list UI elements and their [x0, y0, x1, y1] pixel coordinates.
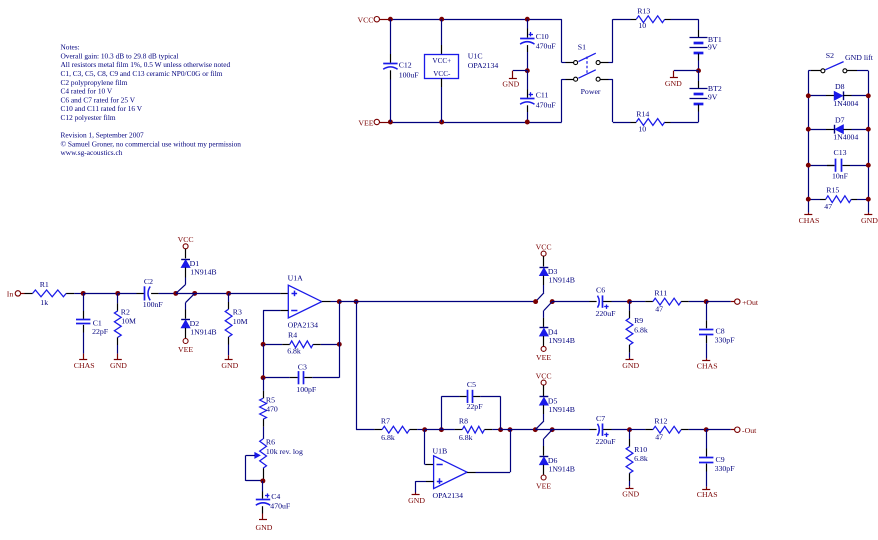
svg-text:-Out: -Out	[742, 426, 757, 435]
wire switch to R13 rail	[600, 62, 608, 64]
junction D2 tap	[192, 291, 197, 296]
wire C6 to R11	[630, 301, 646, 303]
svg-text:10: 10	[638, 125, 646, 134]
svg-text:10M: 10M	[121, 317, 136, 326]
svg-text:C2: C2	[144, 277, 153, 286]
svg-text:6.8k: 6.8k	[634, 325, 648, 334]
svg-text:VEE: VEE	[536, 353, 551, 362]
svg-text:VCC: VCC	[178, 235, 194, 244]
svg-text:S1: S1	[578, 42, 586, 51]
svg-text:D7: D7	[835, 115, 845, 124]
wire D3 jog	[536, 293, 544, 302]
svg-text:470uF: 470uF	[536, 41, 557, 50]
svg-text:U1A: U1A	[288, 274, 304, 283]
svg-text:10: 10	[638, 21, 646, 30]
diode D1	[185, 249, 187, 259]
capacitor C12	[390, 19, 392, 54]
svg-text:C4 rated for 10 V: C4 rated for 10 V	[61, 87, 113, 96]
node GND under R3	[228, 355, 230, 359]
capacitor C6	[590, 301, 597, 303]
svg-text:1N914B: 1N914B	[549, 405, 575, 414]
svg-text:1N914B: 1N914B	[190, 267, 216, 276]
node -Out terminal	[706, 429, 731, 431]
capacitor C13	[808, 165, 834, 167]
svg-text:CHAS: CHAS	[799, 216, 820, 225]
node CHAS under C8	[706, 358, 708, 361]
resistor R1	[25, 293, 33, 295]
svg-text:GND: GND	[861, 216, 878, 225]
resistor R9	[629, 302, 631, 311]
capacitor C3 feedback	[263, 344, 265, 377]
wire D1 jog to line	[176, 284, 186, 293]
node CHAS gnd-lift	[808, 213, 810, 215]
svg-text:R9: R9	[634, 316, 643, 325]
svg-text:Power: Power	[581, 87, 601, 96]
svg-text:6.8k: 6.8k	[287, 347, 301, 356]
wire S2 left to rail	[811, 70, 821, 72]
svg-text:R5: R5	[266, 395, 275, 404]
wire C1 to R2	[83, 293, 118, 295]
node GND under R2	[117, 354, 119, 360]
svg-text:C13: C13	[834, 148, 847, 157]
svg-text:VCC: VCC	[536, 243, 552, 252]
svg-text:1N914B: 1N914B	[190, 328, 216, 337]
svg-text:C10: C10	[536, 32, 549, 41]
svg-text:C8: C8	[716, 327, 725, 336]
battery BT2	[698, 71, 700, 81]
junction D6 tap	[550, 427, 555, 432]
wire R7 to R8	[425, 429, 455, 431]
svg-text:VEE: VEE	[536, 482, 551, 491]
junction C13 left	[806, 163, 811, 168]
capacitor C1	[83, 293, 85, 311]
wire R3 to U1A +input	[229, 293, 281, 295]
resistor R10	[629, 430, 631, 439]
wire between D5-D6 taps	[535, 429, 552, 431]
wire U1A output	[322, 301, 331, 303]
svg-text:C3: C3	[298, 363, 307, 372]
svg-text:VCC-: VCC-	[433, 70, 451, 78]
svg-text:OPA2134: OPA2134	[468, 61, 499, 70]
wire R8 to D5 tap	[501, 429, 536, 431]
svg-text:100nF: 100nF	[143, 300, 164, 309]
svg-text:BT2: BT2	[708, 84, 722, 93]
node GND under R10	[629, 486, 631, 488]
svg-text:© Samuel Groner, no commercial: © Samuel Groner, no commercial use witho…	[61, 139, 242, 148]
node +Out terminal	[706, 301, 731, 303]
svg-text:C10 and C11 rated for 16 V: C10 and C11 rated for 16 V	[61, 104, 143, 113]
svg-text:D8: D8	[835, 82, 845, 91]
ground power mid	[512, 71, 514, 79]
junction R4 left	[261, 342, 266, 347]
junction C10-C11-GND	[525, 68, 530, 73]
svg-text:CHAS: CHAS	[697, 490, 718, 499]
svg-text:470uF: 470uF	[270, 501, 291, 510]
resistor R8	[455, 429, 463, 431]
wire D4 tap to C6	[552, 301, 589, 303]
op-amp U1A	[288, 285, 322, 318]
svg-text:220uF: 220uF	[596, 309, 617, 318]
junction D3 tap	[533, 299, 538, 304]
svg-text:R4: R4	[288, 331, 297, 340]
svg-text:C6: C6	[596, 286, 605, 295]
svg-text:R15: R15	[826, 186, 839, 195]
svg-text:1N914B: 1N914B	[549, 465, 575, 474]
svg-text:R2: R2	[121, 307, 130, 316]
junction R12-C9	[704, 427, 709, 432]
wire gnd-lift right rail	[868, 71, 870, 213]
svg-text:R13: R13	[637, 7, 650, 16]
svg-text:GND: GND	[622, 489, 639, 498]
svg-text:www.sg-acoustics.ch: www.sg-acoustics.ch	[61, 148, 123, 157]
junction R15 right	[866, 197, 871, 202]
svg-text:1N4004: 1N4004	[833, 99, 858, 108]
switch S1	[574, 61, 578, 65]
node VEE below D2	[183, 339, 188, 344]
junction R15 left	[806, 197, 811, 202]
diode D5	[543, 385, 545, 396]
svg-text:U1C: U1C	[468, 51, 483, 60]
wire D5 jog	[535, 421, 544, 430]
svg-text:47: 47	[824, 202, 832, 211]
wire VCC rail	[390, 19, 561, 21]
wire to power ground	[513, 70, 527, 72]
capacitor C2	[118, 293, 137, 295]
junction VEE-U1C	[439, 120, 444, 125]
svg-text:VCC: VCC	[357, 16, 373, 25]
svg-text:U1B: U1B	[433, 446, 448, 455]
wire VEE rail to switch	[561, 79, 563, 122]
wire U1B +input to ground	[426, 481, 434, 483]
wire VCC rail to switch	[561, 19, 563, 62]
svg-text:10M: 10M	[233, 317, 248, 326]
wire switch to R14 rail	[600, 79, 608, 81]
battery BT1	[698, 19, 700, 30]
svg-text:In: In	[7, 290, 14, 299]
svg-text:470: 470	[266, 404, 278, 413]
svg-text:R14: R14	[636, 109, 649, 118]
svg-text:C9: C9	[716, 455, 725, 464]
junction C6-R9	[627, 299, 632, 304]
svg-text:C12: C12	[399, 60, 412, 69]
potentiometer R6 rev log	[260, 439, 267, 468]
resistor R2	[117, 293, 119, 303]
svg-text:GND: GND	[110, 361, 127, 370]
diode D8	[808, 95, 826, 97]
svg-text:C4: C4	[271, 492, 280, 501]
capacitor C11	[527, 71, 529, 90]
node GND gnd-lift	[868, 213, 870, 215]
junction output-feedback	[337, 299, 342, 304]
capacitor C5 feedback	[441, 396, 443, 429]
svg-text:+Out: +Out	[742, 298, 759, 307]
svg-text:R11: R11	[654, 289, 667, 298]
svg-text:GND: GND	[256, 523, 273, 532]
node GND under R9	[629, 358, 631, 360]
resistor R13	[631, 19, 637, 21]
node GND under C4	[262, 514, 264, 520]
svg-text:47: 47	[655, 304, 663, 313]
svg-text:C12 polyester film: C12 polyester film	[61, 113, 116, 122]
junction D1 tap	[173, 291, 178, 296]
junction input-R3	[226, 291, 231, 296]
svg-text:6.8k: 6.8k	[381, 433, 395, 442]
svg-text:R12: R12	[654, 417, 667, 426]
junction D7 right	[866, 127, 871, 132]
wire battery midpoint to ground	[674, 70, 699, 72]
junction U1B output	[508, 427, 513, 432]
svg-text:R8: R8	[459, 416, 468, 425]
svg-text:Revision 1, September 2007: Revision 1, September 2007	[61, 131, 145, 140]
svg-text:9V: 9V	[708, 42, 718, 51]
capacitor C9	[706, 430, 708, 449]
svg-text:330pF: 330pF	[715, 464, 736, 473]
resistor R4 feedback	[263, 344, 282, 346]
junction C5 left	[439, 427, 444, 432]
resistor R7	[374, 429, 382, 431]
capacitor C10	[527, 19, 529, 28]
op-amp U1B	[424, 430, 426, 465]
wire D6 tap to C7	[552, 429, 589, 431]
junction R6 wiper	[260, 478, 265, 483]
svg-text:R1: R1	[40, 280, 49, 289]
svg-text:R3: R3	[233, 308, 242, 317]
svg-text:VEE: VEE	[358, 118, 373, 127]
resistor R14	[631, 122, 637, 124]
junction input-R2	[115, 291, 120, 296]
svg-text:47: 47	[655, 433, 663, 442]
svg-text:330pF: 330pF	[715, 336, 736, 345]
junction C5 right	[498, 427, 503, 432]
svg-text:C1, C3, C5, C8, C9 and C13 cer: C1, C3, C5, C8, C9 and C13 ceramic NP0/C…	[61, 69, 223, 78]
svg-text:100pF: 100pF	[296, 385, 317, 394]
svg-text:R7: R7	[381, 416, 390, 425]
junction R7-U1B	[422, 427, 427, 432]
svg-text:1N914B: 1N914B	[549, 275, 575, 284]
svg-text:C2 polypropylene film: C2 polypropylene film	[61, 78, 128, 87]
wire output down to R4/C3	[339, 302, 341, 378]
svg-text:10nF: 10nF	[832, 172, 849, 181]
node VEE below D6	[541, 475, 546, 480]
svg-text:Overall gain: 10.3 dB to 29.8: Overall gain: 10.3 dB to 29.8 dB typical	[61, 51, 179, 60]
junction output-stage2	[354, 299, 359, 304]
wire gnd-lift left rail	[808, 71, 810, 213]
svg-text:GND: GND	[665, 79, 682, 88]
svg-text:OPA2134: OPA2134	[433, 491, 464, 500]
svg-text:6.8k: 6.8k	[634, 454, 648, 463]
svg-text:OPA2134: OPA2134	[288, 321, 319, 330]
svg-text:CHAS: CHAS	[697, 361, 718, 370]
svg-text:100uF: 100uF	[399, 70, 420, 79]
diode D3	[543, 256, 545, 266]
junction VEE-C11	[525, 120, 530, 125]
wire U1A -input feedback	[280, 310, 288, 312]
diode D7	[808, 129, 826, 131]
svg-text:C6 and C7 rated for 25 V: C6 and C7 rated for 25 V	[61, 95, 136, 104]
svg-text:C5: C5	[467, 380, 476, 389]
wire VEE rail	[390, 122, 561, 124]
wire output line to D3	[339, 301, 535, 303]
svg-text:10k rev. log: 10k rev. log	[266, 447, 303, 456]
svg-text:C7: C7	[596, 414, 605, 423]
diode D4	[544, 302, 552, 311]
junction D8 left	[806, 93, 811, 98]
svg-text:470uF: 470uF	[536, 100, 557, 109]
capacitor C7	[590, 429, 597, 431]
node CHAS under C9	[706, 487, 708, 490]
capacitor C8	[706, 302, 708, 321]
wire R1 to junction	[74, 293, 83, 295]
svg-text:VCC: VCC	[536, 372, 552, 381]
svg-text:CHAS: CHAS	[74, 361, 95, 370]
junction D7 left	[806, 127, 811, 132]
svg-text:C11: C11	[536, 90, 549, 99]
svg-text:VEE: VEE	[178, 345, 193, 354]
node VEE below D4	[541, 346, 546, 351]
svg-text:22pF: 22pF	[92, 327, 109, 336]
svg-text:6.8k: 6.8k	[459, 433, 473, 442]
diode D6	[544, 430, 552, 439]
junction C3 left	[261, 375, 266, 380]
resistor R5	[263, 378, 265, 391]
junction D4 tap	[550, 299, 555, 304]
resistor R11	[645, 301, 653, 303]
svg-text:Notes:: Notes:	[61, 43, 80, 52]
op-amp U1C power pins box	[441, 19, 443, 45]
svg-text:S2: S2	[826, 51, 834, 60]
junction D5 tap	[533, 427, 538, 432]
svg-text:GND: GND	[502, 79, 519, 88]
junction input-C1	[81, 291, 86, 296]
svg-text:220uF: 220uF	[596, 437, 617, 446]
node CHAS under C1	[83, 354, 85, 360]
junction VCC-U1C	[439, 17, 444, 22]
wire S2 right to rail	[847, 70, 857, 72]
junction C13 right	[866, 163, 871, 168]
notes text block	[61, 43, 242, 158]
svg-text:All resistors metal film 1%, 0: All resistors metal film 1%, 0.5 W unles…	[61, 60, 231, 69]
svg-text:22pF: 22pF	[467, 402, 484, 411]
capacitor C4	[262, 481, 264, 492]
svg-text:R6: R6	[266, 437, 275, 446]
resistor R3	[228, 293, 230, 302]
wire U1B output up	[467, 472, 475, 474]
wire stage2 branch down	[356, 302, 358, 430]
svg-text:GND: GND	[622, 361, 639, 370]
ground U1B	[415, 493, 417, 495]
svg-text:VCC+: VCC+	[432, 57, 451, 65]
wire between diode taps	[176, 293, 195, 295]
svg-text:R10: R10	[634, 445, 647, 454]
resistor R12	[645, 429, 653, 431]
junction battery midpoint	[696, 68, 701, 73]
junction R11-C8	[704, 299, 709, 304]
junction C7-R10	[627, 427, 632, 432]
svg-text:1k: 1k	[40, 298, 48, 307]
diode D2	[186, 293, 195, 302]
junction VCC-C12	[388, 17, 393, 22]
svg-text:1N914B: 1N914B	[549, 336, 575, 345]
junction VCC-C10	[525, 17, 530, 22]
junction VEE-C12	[388, 120, 393, 125]
svg-text:9V: 9V	[708, 93, 718, 102]
svg-text:GND lift: GND lift	[845, 53, 874, 62]
resistor R15	[808, 199, 820, 201]
svg-text:GND: GND	[221, 361, 238, 370]
svg-text:1N4004: 1N4004	[833, 132, 858, 141]
junction D8 right	[866, 93, 871, 98]
wire to R3	[195, 293, 229, 295]
ground battery	[673, 71, 675, 78]
svg-text:GND: GND	[408, 496, 425, 505]
wire C7 to R12	[630, 429, 646, 431]
junction R4 right	[337, 342, 342, 347]
